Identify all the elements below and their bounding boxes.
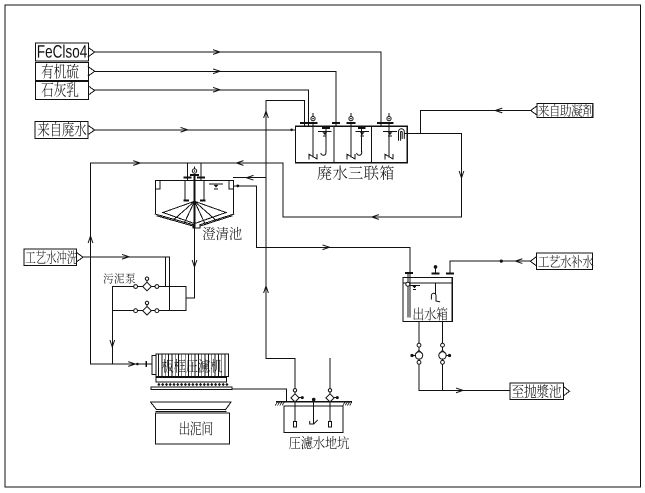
- filter press 板框压滤机: [151, 354, 232, 390]
- label 出水箱: [413, 307, 447, 320]
- pipe flushing water main: [83, 255, 170, 259]
- pipe clarifier feed header: [91, 161, 284, 181]
- label 板框压滤机: [162, 359, 222, 373]
- dip pipe compartment 1: [321, 128, 329, 155]
- pit 压滤水地坑 basin: [284, 406, 343, 433]
- clarifier rake arms: [163, 201, 226, 223]
- pipe sludge pump 1 line: [112, 286, 186, 288]
- pipe raw wastewater inlet: [95, 128, 296, 132]
- label 来自废水 (from wastewater): [35, 121, 95, 138]
- pipe pit pumps discharge to recycle riser: [266, 358, 330, 388]
- pipe tank outlet 1: [418, 322, 420, 391]
- pipe filtrate drain to pit: [232, 389, 286, 402]
- label 有机硫 (organic sulfide): [36, 62, 95, 80]
- pipe clarifier underflow: [186, 228, 197, 298]
- label 工艺水补水 (process make-up water): [530, 253, 593, 270]
- building 出泥间 (mud discharge room): [150, 402, 231, 444]
- clarifier 澄清池 body: [155, 181, 233, 228]
- pipe filtrate recycle riser: [264, 101, 311, 359]
- label 废水三联箱: [317, 165, 394, 180]
- tank vent: [433, 265, 439, 273]
- sludge pump P2: [134, 301, 159, 315]
- label 至抛浆池 (to slurry pond): [510, 383, 570, 400]
- ground line of pit: [275, 402, 351, 405]
- pipe sludge pump 2 line: [112, 310, 186, 312]
- pipe lime milk dosing line: [95, 88, 312, 127]
- label 压滤水地坑: [289, 436, 349, 449]
- agitator M2: [347, 114, 355, 159]
- water level compartment 3: [384, 132, 397, 137]
- label 石灰乳 (lime milk): [36, 82, 95, 100]
- overflow weir pipe: [399, 129, 408, 141]
- pipe flush drop to filter press feed: [90, 257, 92, 364]
- tank float valve: [431, 283, 439, 302]
- label FeClso4: [36, 43, 95, 61]
- pipe recycle to launder: [234, 176, 266, 180]
- tank level gauge: [406, 282, 420, 289]
- pipe pump discharge header: [110, 287, 114, 365]
- pipe organic sulfide dosing line: [95, 69, 340, 126]
- label 澄清池: [203, 227, 242, 240]
- tank 出水箱 (outlet water tank): [403, 278, 452, 322]
- pit pump P3: [291, 389, 304, 402]
- label 出泥间: [180, 421, 213, 435]
- water level compartment 1: [319, 132, 332, 137]
- pipe FeClso4 dosing line: [95, 50, 384, 127]
- label 污泥泵 (sludge pumps): [103, 273, 135, 283]
- tank partition walls: [333, 126, 335, 163]
- disposal pump P6: [439, 343, 451, 364]
- pipe flush riser to clarifier feed: [88, 163, 92, 257]
- pit pump P4: [326, 389, 339, 402]
- pipe make-up water line: [447, 259, 531, 273]
- pit level float: [310, 398, 318, 424]
- pit suction pipe 1 with foot valve: [294, 402, 297, 427]
- pipe filter press feed: [91, 362, 152, 366]
- disposal pump P5: [410, 343, 422, 364]
- sludge pump P1: [134, 277, 159, 291]
- pipe clarified water to outlet tank: [234, 185, 413, 318]
- agitator M3: [385, 114, 393, 159]
- tank 废水三联箱 (wastewater triple tank): [295, 126, 407, 163]
- clarifier feedwell: [184, 181, 204, 201]
- pipe flush branches to pumps: [165, 257, 169, 311]
- label 来自助凝剂 (from coagulant aid): [531, 104, 594, 118]
- pipe tank outlet to downcomer: [407, 133, 461, 135]
- pipe coagulant aid line: [421, 108, 531, 133]
- pipe downcomer and return run: [283, 134, 464, 220]
- label 工艺水冲洗 (process water flushing): [24, 249, 83, 266]
- dip pipe compartment 2: [357, 128, 365, 155]
- pipe to slurry pond: [419, 388, 510, 392]
- clarifier water level: [210, 184, 223, 189]
- agitator M1: [309, 114, 317, 159]
- clarifier launder boxes: [155, 181, 160, 189]
- pit suction pipe 2 with foot valve: [329, 402, 332, 427]
- water level compartment 2: [356, 132, 369, 137]
- clarifier drive motor and shaft: [191, 167, 198, 227]
- pipe tank outlet 2: [442, 322, 444, 391]
- pipe pump suction header: [185, 287, 187, 311]
